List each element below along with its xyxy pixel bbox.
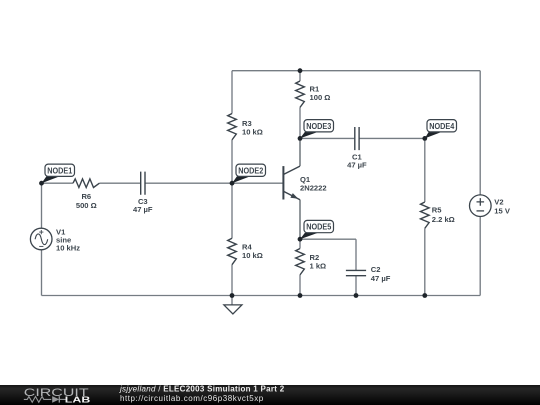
- svg-text:500 Ω: 500 Ω: [76, 201, 97, 210]
- svg-text:10 kΩ: 10 kΩ: [242, 128, 263, 137]
- wire V1 branch upper: [41, 183, 43, 228]
- wire base NODE2 to Q1: [232, 182, 283, 184]
- svg-text:10 kΩ: 10 kΩ: [242, 251, 263, 260]
- wire R5 bottom lead: [424, 228, 426, 295]
- svg-text:V2: V2: [494, 197, 503, 206]
- svg-text:10 kHz: 10 kHz: [56, 243, 80, 252]
- node flag NODE1: [42, 164, 75, 183]
- node dot NODE4: [422, 136, 427, 141]
- wire collector lead: [299, 138, 301, 166]
- wire V2 branch upper: [479, 71, 481, 195]
- svg-text:2N2222: 2N2222: [300, 184, 327, 193]
- wire ground stem: [231, 296, 233, 305]
- node dot NODE1: [39, 181, 44, 186]
- node flag NODE2: [232, 164, 266, 183]
- resistor R6: [73, 179, 99, 210]
- resistor R1: [296, 81, 331, 107]
- wire R2 bottom lead: [299, 275, 301, 296]
- footer bar: [0, 385, 540, 405]
- wire V2 branch lower: [479, 217, 481, 296]
- svg-text:jsjyelland / ELEC2003 Simulati: jsjyelland / ELEC2003 Simulation 1 Part …: [119, 384, 285, 393]
- svg-text:1 kΩ: 1 kΩ: [310, 262, 327, 271]
- junction dot C2 bottom: [354, 293, 359, 298]
- svg-text:R3: R3: [242, 119, 252, 128]
- svg-text:2.2 kΩ: 2.2 kΩ: [432, 215, 455, 224]
- node dot NODE2: [230, 181, 235, 186]
- resistor R2: [296, 249, 326, 275]
- svg-text:http://circuitlab.com/c96p38kv: http://circuitlab.com/c96p38kvct5xp: [120, 394, 264, 403]
- source V1 sine: [30, 227, 80, 252]
- svg-text:LAB: LAB: [65, 395, 91, 405]
- wire R3 bottom lead: [231, 140, 233, 183]
- svg-text:C2: C2: [371, 265, 381, 274]
- svg-text:R1: R1: [310, 84, 320, 93]
- wire NODE5 to C2: [300, 238, 356, 240]
- svg-text:15 V: 15 V: [494, 206, 511, 215]
- resistor R4: [228, 238, 263, 264]
- resistor R5: [421, 202, 455, 228]
- svg-text:47 µF: 47 µF: [371, 274, 391, 283]
- wire R1 bottom lead: [299, 107, 301, 138]
- wire R4 top lead: [231, 183, 233, 238]
- svg-text:47 µF: 47 µF: [347, 161, 367, 170]
- wire R5 top lead: [424, 138, 426, 202]
- source V2 15V: [470, 195, 511, 217]
- capacitor C3: [133, 172, 153, 214]
- capacitor C1: [347, 127, 367, 170]
- junction dot R5 bottom: [422, 293, 427, 298]
- capacitor C2: [346, 265, 391, 283]
- wire bottom ground rail: [42, 295, 481, 297]
- wire NODE1 to R6: [42, 182, 74, 184]
- svg-text:R6: R6: [81, 192, 91, 201]
- wire NODE3 to C1: [300, 137, 354, 139]
- wire R3 top lead: [231, 71, 233, 114]
- svg-text:47 µF: 47 µF: [133, 205, 153, 214]
- wire C2 bottom lead: [355, 276, 357, 296]
- node dot NODE3: [298, 136, 303, 141]
- wire C2 top lead: [355, 239, 357, 270]
- wire V1 branch lower: [41, 250, 43, 296]
- node flag NODE3: [300, 120, 334, 139]
- svg-text:R5: R5: [432, 206, 442, 215]
- svg-text:NODE1: NODE1: [47, 165, 72, 175]
- svg-text:100 Ω: 100 Ω: [310, 93, 331, 102]
- wire R2 top lead: [299, 239, 301, 248]
- transistor Q1 2N2222: [283, 166, 326, 200]
- wire R6 to C3: [99, 182, 140, 184]
- node flag NODE4: [425, 120, 457, 139]
- junction dot R1 top: [298, 68, 303, 73]
- svg-text:NODE3: NODE3: [306, 121, 331, 131]
- wire R1 top lead: [299, 71, 301, 81]
- node flag NODE5: [300, 220, 334, 239]
- junction dot ground: [230, 293, 235, 298]
- node dot NODE5: [298, 237, 303, 242]
- wire R4 bottom lead: [231, 265, 233, 296]
- wire top supply rail: [232, 70, 480, 72]
- wire C1 to NODE4: [360, 137, 425, 139]
- svg-text:NODE4: NODE4: [429, 121, 454, 131]
- svg-text:NODE2: NODE2: [238, 165, 263, 175]
- wire emitter lead: [299, 200, 301, 240]
- svg-text:R4: R4: [242, 242, 252, 251]
- CircuitLab logo resistor-diode squiggle: [24, 396, 66, 402]
- resistor R3: [228, 114, 263, 140]
- ground symbol: [224, 305, 242, 314]
- wire C3 to NODE2: [145, 182, 232, 184]
- svg-text:NODE5: NODE5: [306, 222, 331, 232]
- junction dot R2 bottom: [298, 293, 303, 298]
